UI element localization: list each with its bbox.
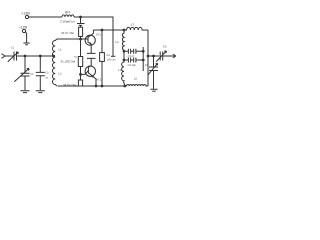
wire VT1 base line <box>57 38 88 40</box>
node output junction <box>147 55 149 57</box>
svg-text:VT1: VT1 <box>96 32 102 36</box>
svg-text:34.07 Ом: 34.07 Ом <box>61 31 74 35</box>
svg-text:+12В: +12В <box>21 11 30 15</box>
capacitor C9 (between VT1 emitter and VT2 collector) <box>87 53 96 58</box>
inductor L4 (upper vertical) <box>122 30 124 51</box>
svg-text:R4: R4 <box>107 54 111 57</box>
ground <box>21 91 30 93</box>
node L4 top <box>123 29 125 31</box>
svg-text:С2: С2 <box>30 73 34 76</box>
wire C9 to VT2 collector <box>88 58 91 67</box>
transformer winding L1/L2 <box>52 39 56 86</box>
node base chain top <box>80 38 82 40</box>
wire antenna to C1 <box>5 55 14 57</box>
svg-text:–12В: –12В <box>19 26 28 30</box>
capacitor C8 (shunt variable output) <box>149 56 158 89</box>
svg-text:L5: L5 <box>134 77 138 81</box>
terminal -12V <box>22 29 25 32</box>
svg-text:Др1: Др1 <box>65 10 71 14</box>
ground <box>36 91 45 93</box>
wire ladder left mid <box>123 51 125 60</box>
terminal +12V <box>25 15 28 18</box>
svg-text:С1: С1 <box>11 46 15 49</box>
wire ladder right rail <box>142 47 144 71</box>
resistor R3 <box>80 74 82 80</box>
wire output vertical <box>147 30 149 86</box>
svg-text:С5: С5 <box>163 45 167 49</box>
inductor L6 (lower vertical) <box>122 60 125 86</box>
capacitor C7 (series variable output) <box>160 52 173 61</box>
output arrow <box>173 54 176 58</box>
capacitor C2 (shunt variable) <box>21 56 30 90</box>
ground <box>150 89 157 91</box>
resistor R4 <box>101 30 103 53</box>
inductor L5 (on bottom rail) <box>127 85 149 86</box>
wire bottom rail <box>58 85 127 87</box>
node ladder row2 left <box>123 59 125 61</box>
svg-text:R1: R1 <box>73 20 77 23</box>
svg-text:3 10мкГн: 3 10мкГн <box>60 20 73 24</box>
svg-text:R2: R2 <box>74 56 78 59</box>
transistor VT1 <box>85 35 95 45</box>
wire chain from +12 rail <box>80 16 82 18</box>
node B <box>39 55 41 57</box>
wire output line <box>148 55 159 57</box>
svg-text:L2: L2 <box>59 72 63 76</box>
svg-text:15: 15 <box>45 76 48 79</box>
svg-text:31.100 Ом: 31.100 Ом <box>61 60 75 64</box>
inductor L3 <box>124 27 148 30</box>
ground (under -12V terminal) <box>23 32 29 45</box>
node tap <box>53 55 55 57</box>
wire +12 feed end tick <box>111 55 115 57</box>
node ladder row1 left <box>123 50 125 52</box>
svg-text:L4: L4 <box>116 40 120 44</box>
node C6 tap <box>153 55 155 57</box>
svg-text:С3: С3 <box>45 71 49 74</box>
wire VT2 base line <box>81 70 89 74</box>
capacitor C6 row (lower pair) <box>124 58 143 63</box>
node base chain mid <box>80 74 82 76</box>
wire top rail right <box>74 17 113 56</box>
node R4 top <box>101 29 103 31</box>
wire collector rail y30 <box>93 29 124 31</box>
svg-text:L3: L3 <box>131 22 135 26</box>
svg-text:С6: С6 <box>145 63 149 67</box>
capacitor C5 row (upper pair) <box>124 49 143 54</box>
capacitor C3 <box>36 56 45 90</box>
wire top rail left <box>29 16 62 18</box>
transistor VT2 <box>85 66 95 76</box>
svg-text:С4 18р: С4 18р <box>128 64 137 67</box>
svg-text:L1: L1 <box>59 48 63 52</box>
wire input line <box>17 55 54 57</box>
node A <box>24 55 26 57</box>
svg-text:100 Ом: 100 Ом <box>107 58 116 61</box>
svg-text:L4: L4 <box>118 68 122 72</box>
inductor L7 (choke on +12V rail) <box>62 15 74 17</box>
antenna WA1 <box>2 54 5 59</box>
svg-text:VT2: VT2 <box>96 77 102 81</box>
